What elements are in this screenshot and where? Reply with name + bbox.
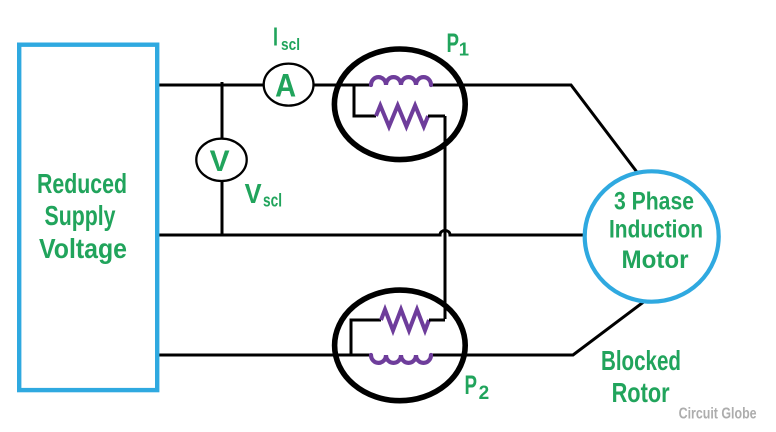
svg-text:2: 2 bbox=[479, 383, 490, 404]
svg-text:P: P bbox=[465, 370, 478, 400]
W2 current coil (inductor humps, below line) bbox=[371, 355, 431, 363]
W1 pressure coil connector right bbox=[428, 115, 445, 118]
supply box bbox=[19, 45, 157, 390]
svg-text:Blocked: Blocked bbox=[601, 345, 681, 376]
W1 pressure coil resistor zigzag bbox=[376, 106, 428, 127]
svg-text:Induction: Induction bbox=[609, 216, 703, 244]
motor circle bbox=[585, 171, 719, 301]
W1 current coil (inductor humps) bbox=[371, 77, 431, 85]
svg-text:V: V bbox=[210, 145, 230, 178]
wire middle line with hop over vertical wire bbox=[158, 231, 586, 236]
svg-text:Voltage: Voltage bbox=[39, 233, 127, 264]
svg-text:Circuit Globe: Circuit Globe bbox=[679, 405, 757, 422]
svg-text:A: A bbox=[275, 68, 296, 104]
svg-text:Supply: Supply bbox=[45, 200, 116, 231]
wire vertical pressure-coil link P1 to P2 bbox=[444, 116, 447, 319]
wire vertical through voltmeter bbox=[221, 82, 224, 235]
wattmeter W1 ellipse bbox=[334, 49, 465, 160]
svg-text:1: 1 bbox=[459, 38, 469, 59]
label Blocked Rotor bbox=[601, 345, 681, 408]
svg-text:V: V bbox=[245, 178, 262, 209]
svg-text:I: I bbox=[273, 22, 278, 52]
W2 pressure coil resistor zigzag bbox=[381, 310, 429, 331]
wire top line from supply to motor (gap where W1 coil sits) bbox=[158, 84, 370, 87]
label Iscl bbox=[273, 22, 300, 54]
wattmeter W2 ellipse bbox=[335, 290, 466, 401]
svg-text:Rotor: Rotor bbox=[612, 377, 670, 408]
ammeter A bbox=[264, 64, 314, 106]
label P2 bbox=[465, 370, 490, 404]
label P1 bbox=[447, 28, 470, 60]
svg-text:Reduced: Reduced bbox=[37, 168, 127, 199]
voltmeter V bbox=[196, 139, 246, 181]
svg-text:scl: scl bbox=[281, 35, 300, 54]
svg-text:scl: scl bbox=[263, 191, 282, 211]
W2 pressure coil connector right bbox=[429, 319, 445, 322]
svg-text:P: P bbox=[447, 28, 460, 58]
motor label bbox=[609, 188, 703, 275]
supply label: Reduced Supply Voltage bbox=[37, 168, 127, 264]
svg-text:3 Phase: 3 Phase bbox=[614, 188, 694, 216]
svg-text:Motor: Motor bbox=[622, 246, 689, 274]
label Vscl bbox=[245, 178, 282, 211]
W2 pressure coil connector left bbox=[351, 320, 381, 355]
W1 pressure coil connector left bbox=[354, 85, 376, 116]
wire bottom line from supply to motor (gap where W2 coil sits) bbox=[158, 354, 372, 357]
